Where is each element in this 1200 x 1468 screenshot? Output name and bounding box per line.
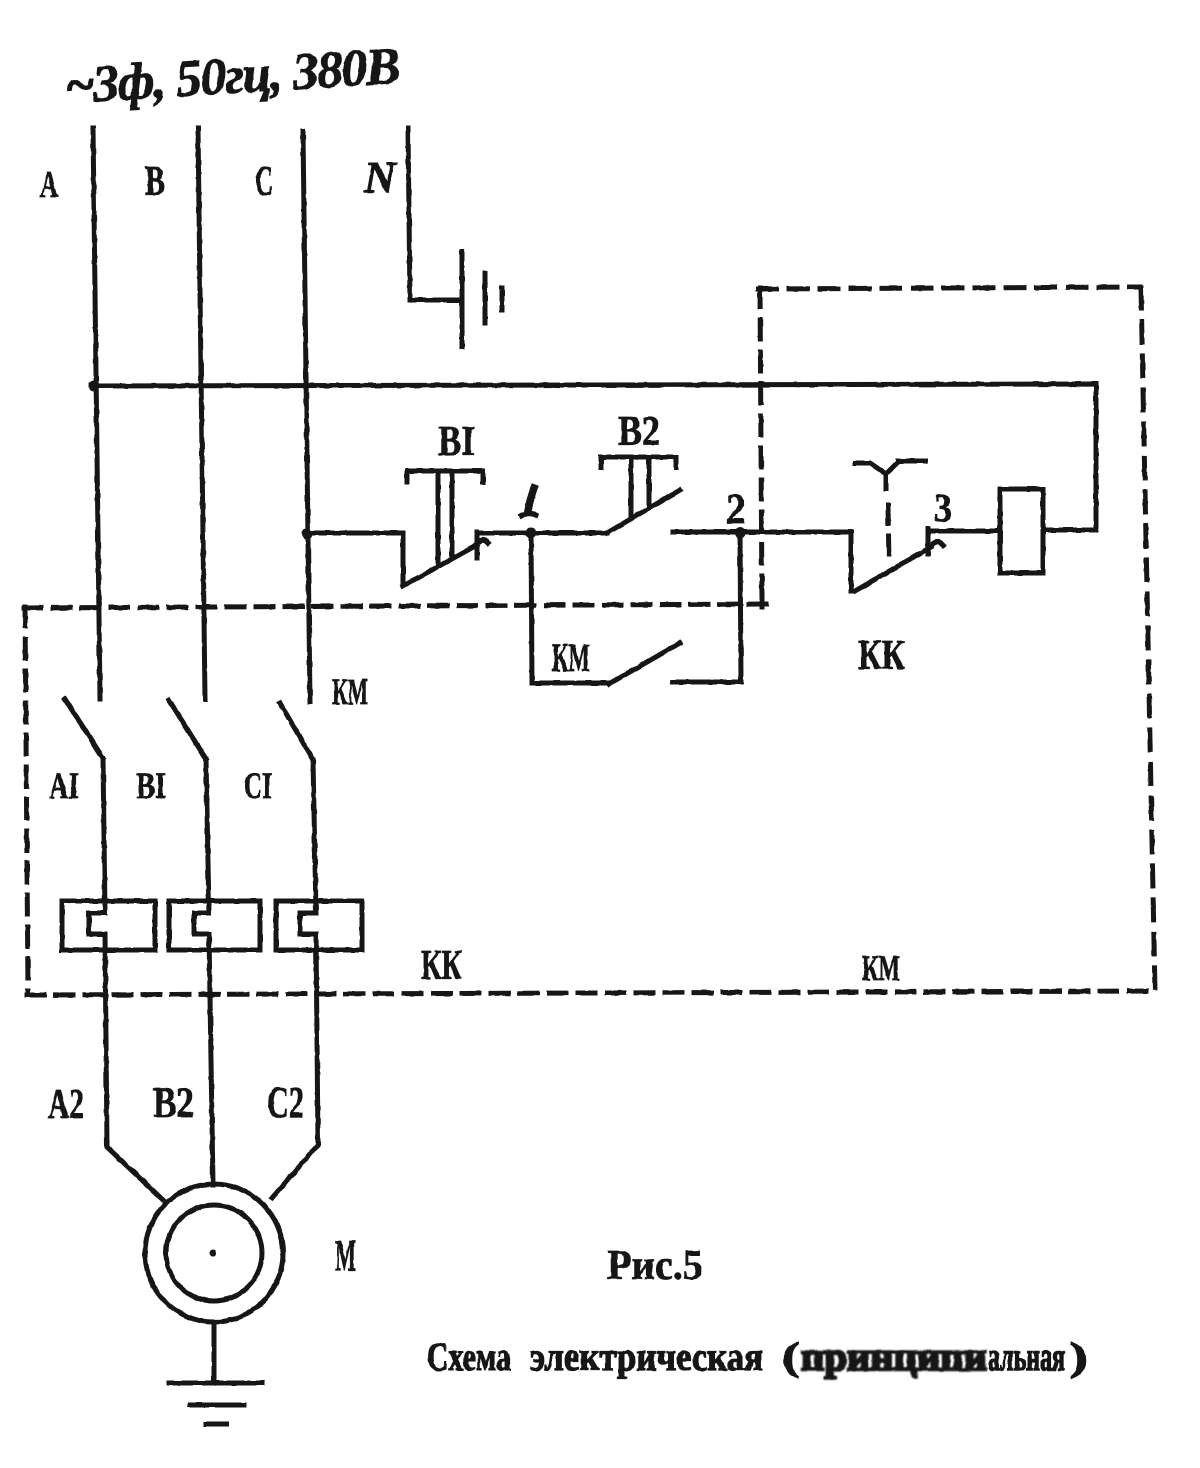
junction dot on phase A — [89, 381, 100, 392]
KK release stub — [884, 474, 889, 489]
svg-text:КМ: КМ — [862, 948, 900, 988]
phase B lower wire with heater jog — [194, 759, 213, 1185]
supply label text "~3ф, 50гц, 380В" — [63, 38, 402, 115]
motor M center dot — [210, 1250, 217, 1257]
svg-text:2: 2 — [726, 487, 746, 533]
node 1 drop wire — [531, 533, 532, 683]
dashed box right: right edge — [1141, 288, 1155, 992]
phase A lower wire with heater jog — [89, 758, 163, 1200]
heater KK box B — [169, 901, 260, 950]
wire B1 to B2 — [478, 531, 607, 536]
dashed box left: left edge — [25, 607, 28, 993]
KK thermal contact left post — [849, 532, 854, 591]
svg-text:КМ: КМ — [552, 635, 590, 680]
dashed box right: top edge — [758, 287, 1140, 289]
svg-text:АІ: АІ — [49, 766, 79, 807]
ground bar 1 — [169, 1381, 262, 1386]
svg-text:альная: альная — [988, 1334, 1065, 1379]
motor M inner circle — [166, 1205, 262, 1301]
dashed box right: left edge — [760, 288, 762, 604]
button B1 right post — [475, 532, 480, 558]
dashed box bottom edge (shared) — [27, 991, 1155, 995]
svg-text:ВІ: ВІ — [438, 419, 475, 465]
KK thermal release symbol — [855, 461, 925, 474]
svg-text:~3ф, 50гц, 380В: ~3ф, 50гц, 380В — [63, 38, 402, 115]
svg-text:3: 3 — [934, 485, 952, 530]
motor M outer circle — [145, 1184, 283, 1322]
heater KK box C — [276, 901, 362, 950]
earth electrode bar 2 — [483, 273, 488, 323]
phase C lower wire with heater jog — [272, 760, 318, 1198]
svg-text:ВІ: ВІ — [136, 766, 166, 807]
bus wire from phase A to coil branch — [94, 384, 1096, 530]
svg-text:М: М — [335, 1231, 356, 1280]
svg-text:А: А — [40, 164, 58, 206]
svg-text:принципи: принципи — [801, 1334, 987, 1379]
button B2 actuator bracket — [601, 457, 676, 468]
ground bar 3 — [206, 1422, 227, 1427]
node 2 drop wire — [740, 533, 741, 682]
ground bar 2 — [190, 1403, 244, 1408]
label node 1 — [528, 488, 534, 511]
button B1 actuator stem left — [436, 472, 441, 564]
svg-text:): ) — [1069, 1334, 1088, 1379]
KM main contact B blade — [169, 700, 206, 759]
KM latch blade — [609, 643, 680, 684]
heater KK box A — [62, 901, 155, 950]
phase line B — [198, 128, 205, 699]
KK thermal contact blade — [855, 547, 931, 591]
button B2 actuator stem right — [647, 457, 652, 508]
earth electrode bar 1 — [460, 252, 465, 347]
KM latch contact left wire — [532, 681, 609, 686]
svg-text:(: ( — [782, 1334, 800, 1379]
svg-text:С2: С2 — [267, 1078, 304, 1127]
KM main contact A blade — [65, 699, 103, 758]
earth electrode bar 3 — [500, 288, 505, 310]
button B2 (NO) blade — [607, 490, 680, 533]
button B2 actuator stem left — [629, 457, 634, 518]
KK actuator dashed link — [888, 505, 889, 563]
neutral line N — [408, 128, 462, 300]
svg-text:электрическая: электрическая — [530, 1334, 763, 1379]
svg-text:В2: В2 — [153, 1080, 194, 1127]
phase line C — [303, 131, 310, 702]
svg-text:КМ: КМ — [332, 672, 368, 713]
wire B2 to KK contact — [673, 530, 851, 535]
button B1 blade hook — [475, 540, 488, 546]
KM latch right wire — [673, 680, 741, 685]
phase line A — [93, 128, 100, 699]
control tap junction dot on phase C — [302, 529, 313, 540]
svg-text:КК: КК — [421, 943, 462, 989]
wire KK to coil — [930, 529, 1000, 534]
KK thermal contact blade hook — [929, 542, 943, 548]
svg-text:Схема: Схема — [427, 1334, 511, 1379]
button B1 blade — [403, 545, 477, 586]
KM main contact C blade — [280, 703, 313, 760]
dashed box left: top edge — [24, 604, 766, 608]
node 2 junction dot — [735, 528, 746, 539]
svg-text:В2: В2 — [618, 409, 660, 455]
dashed box right: left edge end tick — [760, 595, 765, 607]
svg-text:В: В — [145, 159, 165, 205]
svg-text:СІ: СІ — [244, 766, 272, 807]
svg-text:КК: КК — [858, 633, 905, 679]
svg-text:N: N — [363, 153, 398, 202]
button B1 actuator stem right — [450, 472, 455, 557]
KK thermal contact right post — [926, 529, 931, 554]
svg-text:С: С — [255, 159, 273, 205]
button B1 (NC) left post — [401, 533, 406, 585]
svg-text:Рис.5: Рис.5 — [607, 1243, 703, 1289]
wire tap to button B1 — [307, 531, 403, 536]
node 1 junction dot — [526, 528, 537, 539]
button B1 actuator bracket — [407, 471, 483, 482]
coil KM rectangle — [1000, 489, 1043, 573]
ground stem below motor — [212, 1322, 217, 1383]
svg-text:А2: А2 — [48, 1082, 84, 1128]
